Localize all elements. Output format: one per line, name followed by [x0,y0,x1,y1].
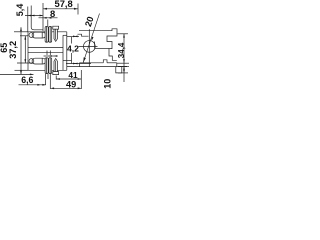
extension line x78 [77,4,79,15]
dimension 37,2 top arrow [24,36,26,40]
dimension 6,6 arrow b [42,84,46,86]
extension line y74 with arrow [0,73,34,75]
dimension 6,6 arrow a [37,84,41,86]
small dim cyl arrow b [54,55,57,57]
top row capsule [32,32,46,38]
dimension 49 left arrow [51,87,55,89]
extension x50.3 above [49,51,51,56]
small dim cyl arrow a [48,55,51,57]
svg-text:4,2: 4,2 [67,44,79,54]
bottom tab [116,67,122,73]
extension line x50.3 [49,74,51,89]
body right rung bottom [63,60,72,62]
dia20 leader line [83,14,99,63]
extension line y63.2 right [117,62,129,64]
body outline [79,29,117,61]
interior line y48.5 [95,48,109,50]
dia20 upper arrow [91,37,93,42]
base plate right edge [116,63,118,67]
extension x47 above [46,51,48,56]
extension line x43 [42,3,44,31]
dimension 10 top arrow [123,66,125,69]
svg-text:6,6: 6,6 [21,75,33,85]
bottom edge extension left [15,69,29,71]
dimension 41 left arrow [56,78,60,80]
dimension 5,4 arrow left [28,15,31,17]
roller circle [84,41,96,53]
extension line x81.3 [80,70,82,89]
top screw [53,26,59,41]
extension line x71.5 vertical [71,37,73,64]
labels [0,0,126,90]
dimension 57,8 left arrow [43,8,47,10]
bottom capsule inner line [41,58,43,63]
bottom long edge [67,66,127,68]
top row circle [29,33,34,38]
dimension 6,6 dim line [19,84,47,86]
bottom row circle [29,59,34,64]
svg-text:34,4: 34,4 [117,42,126,58]
lever arm [78,34,89,36]
body left edge [27,32,29,71]
dimension 49 right arrow [78,87,82,89]
base plate left edge [79,63,81,67]
dimension 37,2 bottom arrow [24,59,26,63]
extension line y63 left [17,62,34,64]
body mid line 1 [28,47,63,49]
svg-text:41: 41 [68,70,78,80]
small dim line between views top [67,35,79,37]
body right rung top [63,34,67,36]
extension line y66.4 right [118,65,129,67]
body top edge [28,31,67,33]
svg-text:37,2: 37,2 [8,41,18,59]
extension line x47.8 [47,20,49,27]
base plate top left segment [80,62,104,64]
body right vertical a [62,35,64,70]
extension line x48 short [47,74,49,79]
dimension 65 top arrow [20,27,22,31]
extension line x56.2 [55,76,57,80]
small dim arrows bottom pair [74,63,77,65]
dimension 57,8 right arrow [74,8,78,10]
dimension 34,4 bottom arrow [123,59,125,63]
body bottom edge [28,69,67,71]
svg-text:57,8: 57,8 [55,0,73,9]
arrow toward x43 on 5,4 line [40,15,43,17]
body right vertical b [66,32,68,71]
dimension 5,4 arrow right [31,15,34,17]
svg-text:10: 10 [102,79,112,89]
dimension 8 dim line [39,17,58,19]
rounded corner feature top-left [31,6,43,30]
dimension 5,4 dim line [25,15,43,17]
extension line y33.8 [118,33,129,35]
top capsule inner line [41,32,43,37]
bottom row capsule [32,58,46,64]
dimension 8 arrow b [48,17,52,19]
extension line y35.8 left [20,35,28,37]
extension line y72.9 right [118,72,128,74]
svg-text:49: 49 [66,80,76,90]
yoke right side [94,42,96,49]
centerline horizontal [79,45,98,47]
dimension 37,2 dim line [24,36,26,63]
dimension 57,8 dim line [43,8,78,10]
dimension 8 arrow a [43,17,47,19]
dimension 10 bottom arrow [123,70,125,73]
extension line x27.8 [27,7,29,32]
dimension 41 dim line [56,78,81,80]
dimension 10 dim line [123,63,125,82]
small dim arrows top pair [74,36,77,38]
small dim line between views bottom [66,63,91,65]
bottom cylinder A [45,58,48,74]
bottom screw [53,58,59,74]
top cylinder A [45,26,48,42]
dimension 41 right arrow [78,78,82,80]
dimension 65 dim line [20,27,22,74]
small dim near cylinders [44,55,58,57]
svg-text:5,4: 5,4 [15,4,25,17]
body mid line 2 [28,51,63,53]
top cylinder B [49,26,52,42]
dimension 34,4 dim line [123,34,125,63]
dia20 lower arrow [83,57,86,62]
dimension 65 bottom arrow [20,71,22,75]
bottom cylinder B [49,58,52,74]
base plate top right segment [107,62,117,64]
extension line x45.5 down [45,74,47,85]
base plate notch [103,60,107,63]
dimension 49 dim line [51,87,82,89]
centerline vertical [88,29,90,66]
extension line y31.8 left [14,31,28,33]
svg-text:8: 8 [50,8,55,19]
dimension 34,4 top arrow [123,34,125,38]
